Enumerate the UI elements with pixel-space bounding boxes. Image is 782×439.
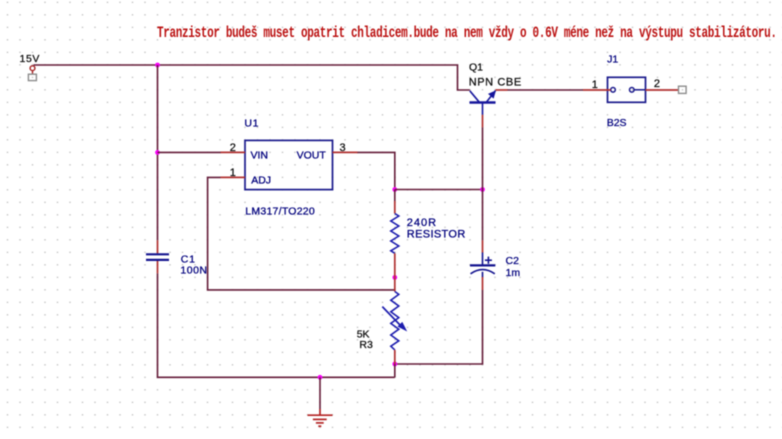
wire R3 bottom to ground rail: [394, 364, 396, 377]
capacitor C2 pin bottom: [482, 277, 484, 290]
svg-text:R3: R3: [359, 339, 373, 351]
svg-text:VOUT: VOUT: [297, 149, 327, 161]
Q1 emitter arrowhead: [488, 90, 496, 98]
svg-text:2: 2: [230, 142, 236, 154]
resistor 240R zigzag: [391, 214, 399, 254]
svg-text:3: 3: [340, 142, 346, 154]
capacitor C2 top plate: [470, 264, 495, 266]
capacitor C1 pin top: [157, 240, 159, 253]
node junction VIN tee: [155, 150, 160, 155]
connector J1 pad circle 2: [630, 88, 635, 93]
node junction top rail: [155, 63, 160, 68]
resistor 240R pin top: [394, 201, 396, 214]
transistor Q1 symbol: [470, 91, 496, 115]
svg-text:VIN: VIN: [251, 149, 269, 161]
svg-text:ADJ: ADJ: [251, 175, 271, 187]
wire ground rail: [158, 273, 395, 377]
U1 pin VIN wire: [221, 151, 246, 153]
op IC U1 box: [245, 140, 333, 189]
wire rail to 240R: [394, 190, 396, 202]
svg-text:J1: J1: [607, 53, 618, 65]
wire base column down: [482, 127, 484, 189]
capacitor C2 plus sign: [485, 259, 492, 261]
wire ground stub: [319, 377, 321, 409]
svg-text:B2S: B2S: [607, 117, 627, 129]
svg-text:1m: 1m: [506, 267, 521, 279]
ground symbol: [308, 409, 333, 426]
svg-text:15V: 15V: [20, 53, 40, 65]
wire C2 top drop: [482, 190, 484, 241]
potentiometer R3 zigzag: [391, 292, 399, 350]
open net square: [679, 86, 687, 93]
wire emitter to J1: [508, 89, 584, 91]
connector J1 box: [608, 77, 646, 102]
note text (red): [157, 25, 777, 42]
potentiometer R3 pin bottom: [394, 350, 396, 364]
connector J1 internal lead: [634, 89, 645, 91]
Q1 base pin stub: [482, 115, 484, 128]
Q1 base lead: [482, 103, 484, 115]
svg-text:1: 1: [230, 167, 236, 179]
J1 pin 2 wire: [646, 89, 679, 91]
U1 pin ADJ wire: [221, 176, 246, 178]
connector J1 pad circle 1: [611, 88, 616, 93]
node junction VOUT rail left: [392, 187, 397, 192]
Q1 base bar: [470, 101, 496, 103]
U1 pin VOUT wire: [333, 151, 358, 153]
capacitor C1 pin bottom: [157, 261, 159, 273]
Q1 collector diagonal: [470, 91, 479, 102]
node junction R3 bottom: [392, 362, 397, 367]
node junction ground tap: [318, 375, 323, 380]
svg-text:100N: 100N: [180, 264, 207, 276]
capacitor C2 bottom stub: [482, 272, 484, 277]
wire C2 bottom drop: [395, 290, 483, 364]
node junction 240R / R3: [392, 275, 397, 280]
Q1 emitter diagonal: [487, 91, 496, 102]
svg-text:2: 2: [654, 78, 660, 90]
supply symbol stub: [32, 71, 34, 74]
supply symbol circle: [30, 66, 35, 71]
svg-text:C2: C2: [506, 255, 520, 267]
potentiometer R3 pin top: [394, 277, 396, 291]
svg-text:LM317/TO220: LM317/TO220: [245, 205, 315, 217]
supply open square: [28, 74, 36, 80]
resistor 240R pin bottom: [394, 253, 396, 277]
wire vertical left bus: [157, 65, 159, 240]
wire top rail 15V: [34, 65, 470, 90]
svg-text:1: 1: [592, 79, 598, 91]
potentiometer R3 wiper arrow: [382, 307, 403, 329]
svg-text:Tranzistor budeš muset opatrit: Tranzistor budeš muset opatrit chladicem…: [157, 25, 777, 42]
svg-text:U1: U1: [244, 117, 259, 129]
svg-text:240R: 240R: [407, 217, 437, 229]
wire ADJ branch: [208, 177, 395, 290]
capacitor C2 body stub: [482, 253, 484, 266]
capacitor C2 pin top: [482, 240, 484, 252]
svg-text:NPN CBE: NPN CBE: [469, 77, 522, 89]
capacitor C1 plates: [146, 253, 169, 255]
wire VOUT rail horizontal: [395, 189, 483, 191]
Q1 emitter pin stub: [496, 89, 508, 91]
svg-text:Q1: Q1: [469, 61, 483, 73]
J1 pin 1 wire: [583, 89, 611, 91]
wire VIN branch: [158, 151, 222, 153]
capacitor C2 curved plate: [471, 270, 495, 274]
svg-text:RESISTOR: RESISTOR: [407, 229, 466, 241]
node junction base column: [480, 187, 485, 192]
wire VOUT to rail: [357, 152, 395, 189]
